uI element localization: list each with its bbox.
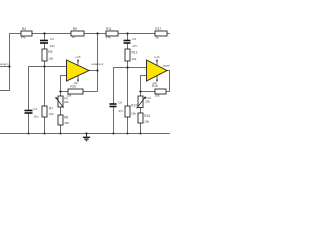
junction bus R8 (60, 133, 62, 135)
svg-text:10k: 10k (131, 112, 136, 116)
op-amp U1 opamp-2 (67, 55, 104, 85)
wire feedback node to pot P10 (140, 92, 142, 97)
junction input riser (8, 65, 10, 67)
wire R13 to bus (127, 117, 129, 134)
wire feedback vertical stage 1 (97, 34, 99, 92)
op-amp U2 opamp-3 (147, 55, 175, 85)
wire left vertical riser (10, 34, 22, 92)
svg-text:R7: R7 (49, 107, 53, 111)
resistor R14 (138, 113, 150, 123)
wire pot P9 to R8 (60, 107, 62, 115)
svg-text:R13: R13 (131, 104, 137, 108)
svg-text:10k: 10k (155, 94, 160, 98)
svg-text:R10: R10 (70, 85, 76, 89)
wire +in line stage 2 (114, 68, 147, 104)
svg-text:10k: 10k (49, 112, 54, 116)
svg-text:C4: C4 (132, 37, 136, 41)
wire feedback node to pot P9 (60, 92, 62, 97)
resistor R9 (71, 27, 84, 39)
svg-text:R12: R12 (132, 51, 138, 55)
svg-text:R8: R8 (64, 116, 68, 120)
potentiometer P10 (137, 96, 151, 108)
junction bus C1 (28, 133, 30, 135)
svg-text:22k: 22k (145, 100, 150, 104)
svg-text:+Ub: +Ub (154, 55, 160, 59)
svg-text:R14: R14 (144, 114, 150, 118)
svg-text:opamp-2: opamp-2 (92, 62, 104, 66)
svg-text:1k: 1k (155, 35, 159, 39)
capacitor C1 (25, 107, 39, 119)
junction bus R13 (127, 133, 129, 135)
wire feedback vertical stage 2 (169, 71, 171, 92)
svg-text:22k: 22k (64, 100, 69, 104)
wire R8 to bus (60, 125, 62, 134)
junction bus ground (85, 132, 87, 134)
svg-text:15k: 15k (64, 121, 69, 125)
wire R5 to +in line 1 (44, 61, 46, 67)
wire R12 to +in line 2 (127, 61, 129, 68)
wire ground bus (0, 133, 170, 135)
wire rail segment node B (84, 33, 106, 35)
wire C4 to R12 (127, 43, 129, 49)
resistor R8 (58, 115, 69, 125)
svg-text:10k: 10k (132, 57, 137, 61)
junction feedback stage 1 (59, 90, 61, 92)
svg-text:10k: 10k (48, 57, 53, 61)
wire input stub bottom (0, 90, 10, 92)
svg-text:R4: R4 (22, 27, 26, 31)
svg-text:C3: C3 (50, 37, 54, 41)
resistor R4 (21, 27, 32, 39)
wire C6 to bus (113, 107, 115, 134)
svg-text:1k: 1k (72, 35, 76, 39)
resistor R16 (152, 84, 166, 98)
wire R7 to bus (44, 117, 46, 134)
svg-text:R5: R5 (48, 50, 52, 54)
wire R10 left lead (61, 91, 69, 93)
svg-text:10u: 10u (33, 115, 38, 119)
junction feedback stage 2 (139, 90, 141, 92)
capacitor C4 (124, 37, 138, 48)
wire C1 to bus (28, 113, 30, 134)
wire C3 to R5 (44, 43, 46, 49)
svg-text:47n: 47n (118, 109, 123, 113)
wire node C down to C4 (127, 34, 129, 41)
wire -in stage 1 (61, 76, 67, 92)
svg-text:47n: 47n (132, 44, 137, 48)
junction bus R7 (44, 133, 46, 135)
junction node C rail (126, 32, 128, 34)
svg-text:10n: 10n (50, 44, 55, 48)
junction +in stage 1 (43, 65, 45, 67)
svg-text:C1: C1 (33, 107, 37, 111)
capacitor C3 (40, 37, 55, 48)
junction output stage 1 (96, 69, 98, 71)
wire R16 left lead (141, 91, 156, 93)
junction +in stage 2 (126, 66, 128, 68)
svg-text:10k: 10k (144, 119, 149, 123)
wire node A down to C3 (44, 34, 46, 41)
resistor R11 (106, 27, 118, 39)
svg-text:47k: 47k (21, 35, 26, 39)
wire -in stage 2 (141, 76, 147, 92)
resistor R13 (125, 104, 137, 117)
wire +in line stage 1 (29, 67, 67, 111)
resistor R5 (42, 49, 54, 61)
resistor R10 (66, 85, 83, 98)
potentiometer P9 (55, 96, 69, 108)
wire input stub top (net opamp-1) (0, 66, 10, 68)
resistor R7 (42, 106, 54, 117)
junction bus C6 (113, 133, 115, 135)
junction bus R14 (140, 133, 142, 135)
svg-text:47k: 47k (106, 35, 111, 39)
svg-text:R11: R11 (106, 27, 112, 31)
svg-text:R16: R16 (152, 84, 158, 88)
wire opamp-3 output (167, 70, 170, 72)
svg-text:R17: R17 (155, 27, 161, 31)
wire node A2 down to R7 (44, 67, 46, 107)
wire rail segment to right edge (167, 33, 170, 35)
svg-text:+Ub: +Ub (75, 55, 81, 59)
resistor R17 (155, 27, 167, 39)
svg-text:opamp-3: opamp-3 (163, 64, 170, 68)
svg-text:C6: C6 (118, 100, 122, 104)
wire R16 right lead (166, 91, 170, 93)
wire opamp-2 output (89, 70, 98, 72)
wire R10 right lead (83, 91, 98, 93)
svg-text:R9: R9 (73, 27, 77, 31)
wire R14 to bus (140, 123, 142, 134)
junction node A rail (43, 32, 45, 34)
ground (83, 134, 90, 141)
wire rail segment node C (118, 33, 155, 35)
wire node C2 down to R13 (127, 68, 129, 107)
junction node B rail (96, 32, 98, 34)
capacitor C6 (110, 100, 124, 112)
wire pot P10 to R14 (140, 108, 142, 114)
svg-text:opamp-1: opamp-1 (0, 62, 9, 66)
wire rail segment node A (32, 33, 71, 35)
resistor R12 (125, 49, 138, 61)
